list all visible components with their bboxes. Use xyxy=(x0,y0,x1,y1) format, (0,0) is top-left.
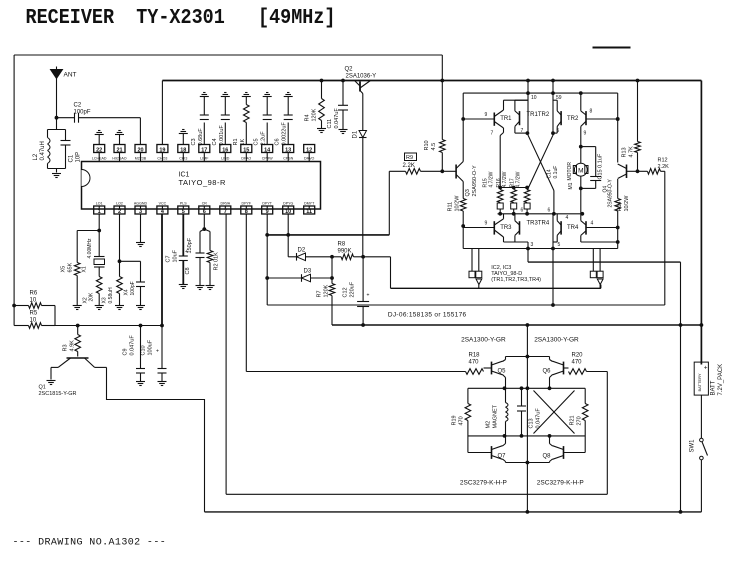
wire cross coupling lower xyxy=(534,391,575,434)
svg-text:2.2K: 2.2K xyxy=(658,164,670,170)
svg-text:2.2uF: 2.2uF xyxy=(261,131,267,146)
svg-text:R20: R20 xyxy=(572,353,584,359)
svg-text:TR4: TR4 xyxy=(567,225,579,231)
wire pin7 down xyxy=(225,214,227,494)
switch SW1 xyxy=(690,438,708,512)
IC1 top pins 22-12 xyxy=(92,145,315,162)
wire emitter bus y213 xyxy=(498,208,585,216)
antenna ANT xyxy=(51,67,77,120)
svg-text:100uF: 100uF xyxy=(148,339,154,355)
svg-text:120K: 120K xyxy=(324,284,330,297)
resistor R14 10/2W xyxy=(615,195,630,212)
ground above pin 22 xyxy=(95,131,104,145)
transistor Q7 2SC3279 xyxy=(460,436,528,487)
resistor R15 4.7/2W xyxy=(483,171,504,213)
svg-text:150pF: 150pF xyxy=(187,237,193,253)
svg-text:LO1: LO1 xyxy=(96,202,103,206)
wire X right leg xyxy=(552,191,556,216)
wire pin8 down xyxy=(245,214,247,372)
wire pin10 drop xyxy=(288,235,296,257)
drawing number text xyxy=(13,538,167,549)
svg-text:0.68uF: 0.68uF xyxy=(198,128,204,146)
capacitor C12 220uF xyxy=(343,257,370,327)
capacitor C11 0.047uF xyxy=(327,81,348,134)
wire pin9 to Q4 base xyxy=(267,171,665,307)
stray mark top right xyxy=(593,47,631,49)
svg-text:R3: R3 xyxy=(63,344,69,351)
H-bridge box bottom edge xyxy=(463,248,618,250)
capacitor C4 0.001uF xyxy=(212,93,230,146)
lower bridge box top xyxy=(468,386,585,390)
wire pin19 to rail xyxy=(161,81,163,145)
svg-text:TR2: TR2 xyxy=(567,116,579,122)
resistor R20 470 xyxy=(569,353,608,375)
svg-text:3: 3 xyxy=(139,209,142,215)
svg-text:270: 270 xyxy=(577,416,583,425)
svg-text:6: 6 xyxy=(521,208,524,214)
svg-text:2SC3279-K-H-P: 2SC3279-K-H-P xyxy=(460,480,507,487)
svg-text:+: + xyxy=(367,293,370,299)
svg-text:LCHEAD: LCHEAD xyxy=(92,156,107,160)
wire base bus y288 xyxy=(391,285,601,289)
svg-text:MAGNET: MAGNET xyxy=(493,404,499,428)
transistor TR4a middle xyxy=(527,214,562,249)
svg-text:R14: R14 xyxy=(617,201,623,211)
capacitor C15 0.1uF xyxy=(581,147,604,189)
svg-text:D3: D3 xyxy=(304,269,312,275)
svg-text:M223B: M223B xyxy=(135,156,147,160)
top border wire xyxy=(14,55,442,81)
wire R8 to TR bases xyxy=(363,257,390,289)
svg-text:TAIYO_98-R: TAIYO_98-R xyxy=(179,178,226,187)
svg-text:X3: X3 xyxy=(102,297,108,303)
svg-text:0.58uH: 0.58uH xyxy=(108,287,114,304)
wire R15-R17 top bus xyxy=(498,186,529,190)
svg-text:(TR1,TR2,TR3,TR4): (TR1,TR2,TR3,TR4) xyxy=(491,277,541,283)
svg-text:0.047uF: 0.047uF xyxy=(334,108,340,129)
svg-text:C13: C13 xyxy=(529,418,535,428)
resistor R2 01K xyxy=(204,229,219,289)
capacitor C6 0.0022uF xyxy=(275,93,293,146)
svg-text:LIND: LIND xyxy=(221,156,230,160)
H-bridge box top edge xyxy=(463,91,618,95)
ground pin 3 xyxy=(136,214,145,247)
IC2 IC3 label xyxy=(491,265,541,283)
resistor R18 470 xyxy=(466,353,484,375)
svg-text:7: 7 xyxy=(491,131,494,137)
svg-text:2SA950-O-Y: 2SA950-O-Y xyxy=(608,178,614,207)
svg-text:+: + xyxy=(156,349,159,355)
svg-text:R4: R4 xyxy=(305,114,311,121)
svg-text:10/2W: 10/2W xyxy=(455,195,461,212)
svg-text:R9: R9 xyxy=(406,155,413,161)
inductor M2 MAGNET xyxy=(486,388,509,436)
ground below L2 C1 xyxy=(52,174,61,178)
svg-text:9: 9 xyxy=(485,112,488,118)
svg-text:65K: 65K xyxy=(68,262,74,272)
ground above pin 21 xyxy=(115,131,124,145)
svg-text:CPSN: CPSN xyxy=(283,156,293,160)
node R8 left xyxy=(330,255,334,259)
svg-text:7: 7 xyxy=(521,128,524,134)
wire C2 to pin 20 xyxy=(139,118,141,145)
svg-text:TR3: TR3 xyxy=(500,225,512,231)
wire pin9 drop xyxy=(265,235,301,305)
svg-text:R21: R21 xyxy=(570,415,576,425)
svg-text:1: 1 xyxy=(98,209,101,215)
node C12 top xyxy=(361,255,365,259)
resistor R8 990K xyxy=(332,242,363,260)
resistor R5 10 xyxy=(14,311,55,329)
svg-text:DRVO: DRVO xyxy=(304,156,315,160)
crystal X1 4.00MHz xyxy=(82,231,105,277)
svg-text:BATTERY: BATTERY xyxy=(697,373,702,391)
svg-text:100pF: 100pF xyxy=(130,281,136,295)
svg-text:C6: C6 xyxy=(275,138,281,145)
svg-text:10: 10 xyxy=(30,298,37,304)
resistor R21 270 box right edge xyxy=(570,388,589,452)
transistor Q8 2SC3279 xyxy=(527,436,585,487)
svg-text:R8: R8 xyxy=(338,242,346,248)
transistor TR4 xyxy=(566,214,620,244)
capacitor C10 100uF xyxy=(141,326,167,386)
svg-text:19: 19 xyxy=(159,147,165,153)
svg-text:Q3: Q3 xyxy=(465,189,471,196)
transistor Q2 2SA1036-Y xyxy=(345,67,377,97)
svg-text:2SA950-O-Y: 2SA950-O-Y xyxy=(472,165,478,197)
svg-text:CHO3: CHO3 xyxy=(157,156,167,160)
svg-text:2SC1815-Y-GR: 2SC1815-Y-GR xyxy=(39,391,77,397)
connector pins IC2 left xyxy=(469,249,482,289)
wire Q6 base right bus xyxy=(606,372,608,495)
svg-text:LO2: LO2 xyxy=(116,202,123,206)
svg-text:100pF: 100pF xyxy=(74,110,91,116)
svg-text:R5: R5 xyxy=(30,311,38,317)
svg-text:20: 20 xyxy=(137,147,143,153)
svg-text:D1: D1 xyxy=(353,130,359,138)
svg-text:Q6: Q6 xyxy=(542,369,551,375)
svg-text:DPYG: DPYG xyxy=(283,202,293,206)
resistor X2 20K xyxy=(83,277,104,310)
wire mid drop left xyxy=(526,247,530,263)
resistor R13 4.7K xyxy=(622,81,641,172)
svg-text:990K: 990K xyxy=(338,249,352,255)
svg-text:10P: 10P xyxy=(76,152,82,163)
op-amp IC1 body xyxy=(82,162,321,210)
svg-text:17: 17 xyxy=(201,147,207,153)
svg-text:X1: X1 xyxy=(82,266,88,272)
svg-text:470: 470 xyxy=(572,360,583,366)
svg-text:20K: 20K xyxy=(89,292,95,302)
svg-text:CHI3: CHI3 xyxy=(179,156,187,160)
resistor R16 4.7/2W xyxy=(496,171,517,213)
svg-text:12: 12 xyxy=(306,147,312,153)
svg-text:TR1TR2: TR1TR2 xyxy=(527,112,550,118)
svg-text:M2: M2 xyxy=(486,421,492,429)
svg-text:5: 5 xyxy=(558,242,561,248)
svg-text:4.7/2W: 4.7/2W xyxy=(489,171,495,187)
svg-text:Q2: Q2 xyxy=(345,67,354,73)
svg-text:10: 10 xyxy=(285,209,291,215)
title text xyxy=(26,7,336,30)
diode D3 xyxy=(302,269,333,282)
svg-text:470: 470 xyxy=(459,416,465,425)
svg-text:R13: R13 xyxy=(622,147,628,157)
battery bus wire right xyxy=(700,81,702,365)
svg-text:R10: R10 xyxy=(424,140,430,150)
svg-text:4: 4 xyxy=(591,221,594,227)
diode D2 xyxy=(297,248,333,261)
svg-text:C5: C5 xyxy=(254,138,260,145)
svg-text:C1: C1 xyxy=(69,154,75,162)
resistor R3 4.9K xyxy=(63,326,81,357)
svg-text:R19: R19 xyxy=(452,415,458,425)
transistor TR1 xyxy=(463,100,528,187)
wire pin9 pin10 bus xyxy=(265,171,389,237)
svg-text:2SA1300-Y-GR: 2SA1300-Y-GR xyxy=(534,337,579,344)
connector pins IC3 right xyxy=(590,249,603,289)
svg-text:0.1uF: 0.1uF xyxy=(553,166,559,179)
svg-text:Q1: Q1 xyxy=(39,385,46,391)
svg-text:DPYT: DPYT xyxy=(262,202,272,206)
svg-text:DFAO: DFAO xyxy=(241,156,251,160)
svg-text:13: 13 xyxy=(285,147,291,153)
svg-text:1K: 1K xyxy=(240,138,246,145)
svg-text:5: 5 xyxy=(182,209,185,215)
svg-text:M1: M1 xyxy=(568,182,574,189)
svg-text:C8: C8 xyxy=(185,267,191,274)
svg-text:+: + xyxy=(704,365,708,372)
svg-text:0.0022uF: 0.0022uF xyxy=(282,122,288,146)
resistor R4 120K xyxy=(305,81,327,133)
svg-text:C9: C9 xyxy=(123,348,129,355)
capacitor C1 xyxy=(48,130,82,173)
lower bridge box bottom xyxy=(468,434,585,438)
resistor R10 4.5K xyxy=(424,81,445,174)
ground above pin 18 xyxy=(179,130,188,145)
svg-text:6: 6 xyxy=(548,208,551,214)
svg-text:TR1: TR1 xyxy=(500,116,512,122)
svg-text:H92SAO: H92SAO xyxy=(112,156,126,160)
svg-text:11: 11 xyxy=(306,209,312,215)
capacitor C9 0.047uF xyxy=(123,326,146,386)
inner bus right vertical xyxy=(679,262,683,514)
svg-text:R7: R7 xyxy=(317,290,323,297)
wire rail drop 59 xyxy=(553,81,562,134)
svg-text:LIMF: LIMF xyxy=(200,156,209,160)
svg-text:0.001uF: 0.001uF xyxy=(219,125,225,146)
svg-text:5: 5 xyxy=(557,128,560,134)
svg-text:7.2V_PACK: 7.2V_PACK xyxy=(718,364,724,396)
svg-text:10/2W: 10/2W xyxy=(624,195,630,212)
motor M1 xyxy=(567,145,588,214)
wire pin2 down xyxy=(118,214,122,263)
svg-text:4.00MHz: 4.00MHz xyxy=(87,238,93,259)
wire cross coupling upper xyxy=(527,133,554,190)
svg-text:BATT: BATT xyxy=(711,380,717,395)
svg-text:10: 10 xyxy=(531,95,537,101)
svg-text:ANT: ANT xyxy=(64,72,77,79)
svg-text:4.9K: 4.9K xyxy=(70,340,76,352)
resistor R7 120K xyxy=(317,278,335,325)
node R7 top xyxy=(330,257,334,280)
svg-text:4.7/2W: 4.7/2W xyxy=(516,171,522,187)
svg-text:C3: C3 xyxy=(191,138,197,145)
svg-text:M: M xyxy=(578,167,583,174)
transistor Q4 2SA950-O-Y xyxy=(603,164,640,208)
wire rail drop 10 xyxy=(528,81,537,134)
svg-text:DMYT: DMYT xyxy=(304,202,315,206)
resistor R11 10/2W xyxy=(448,195,467,212)
capacitor C13 0.047uF xyxy=(517,386,542,437)
wire mid drop right xyxy=(551,247,555,305)
svg-text:--- DRAWING NO.A1302 ---: --- DRAWING NO.A1302 --- xyxy=(13,538,167,549)
ground Q1 xyxy=(47,381,56,385)
svg-text:8: 8 xyxy=(590,109,593,115)
svg-text:4: 4 xyxy=(566,215,569,221)
svg-text:16: 16 xyxy=(222,147,228,153)
V+ rail wire xyxy=(162,79,701,83)
wire pin8 to R18 xyxy=(246,371,465,373)
svg-text:X4: X4 xyxy=(124,289,130,295)
svg-text:6: 6 xyxy=(203,209,206,215)
svg-text:R6: R6 xyxy=(30,291,38,297)
capacitor X4 100pF xyxy=(120,261,146,309)
svg-text:Q8: Q8 xyxy=(542,454,551,460)
transistor TR3b middle xyxy=(515,214,520,242)
svg-text:2: 2 xyxy=(118,209,121,215)
svg-text:22: 22 xyxy=(96,147,102,153)
transistor Q6 2SA1300-Y-GR xyxy=(527,337,579,389)
resistor R19 470 box left edge xyxy=(452,388,471,452)
capacitor C8 150pF xyxy=(185,214,206,290)
left border wire xyxy=(13,55,15,326)
svg-text:D2: D2 xyxy=(298,248,306,254)
capacitor C14 0.1uF xyxy=(547,166,560,179)
svg-text:DRVA: DRVA xyxy=(220,202,230,206)
svg-text:220uF: 220uF xyxy=(350,281,356,297)
svg-text:4.7K: 4.7K xyxy=(629,146,635,158)
svg-text:AGGND: AGGND xyxy=(134,202,148,206)
diode D1 xyxy=(353,97,367,258)
resistor R9 2.2K xyxy=(389,153,442,174)
VCC rail left segment xyxy=(55,324,164,328)
svg-text:120K: 120K xyxy=(312,108,318,121)
svg-text:L2: L2 xyxy=(33,153,39,160)
svg-text:C14: C14 xyxy=(547,169,553,178)
svg-text:Q5: Q5 xyxy=(498,369,507,375)
resistor R6 10 xyxy=(12,291,55,326)
svg-text:8: 8 xyxy=(245,209,248,215)
svg-text:VCC: VCC xyxy=(159,202,167,206)
svg-text:TR3TR4: TR3TR4 xyxy=(527,221,550,227)
wire lower bridge center xyxy=(526,325,530,514)
battery BATT 7.2V_PACK xyxy=(694,325,724,438)
svg-text:R1: R1 xyxy=(233,138,239,145)
svg-text:10: 10 xyxy=(30,318,37,324)
svg-text:CPRW: CPRW xyxy=(262,156,274,160)
inductor L2 xyxy=(33,118,66,169)
H-bridge box right edge xyxy=(616,93,620,248)
wire pin1 down xyxy=(97,214,101,232)
DJ-06 note text xyxy=(388,312,467,319)
svg-text:3: 3 xyxy=(531,242,534,248)
svg-text:R18: R18 xyxy=(469,353,481,359)
IC1 bottom pins 1-11 xyxy=(94,202,315,215)
svg-text:18: 18 xyxy=(180,147,186,153)
capacitor C5 2.2uF xyxy=(254,93,272,146)
svg-text:21: 21 xyxy=(116,147,122,153)
svg-text:15: 15 xyxy=(243,147,249,153)
svg-text:RECEIVER TY-X2301 [49MHz]: RECEIVER TY-X2301 [49MHz] xyxy=(26,7,336,30)
svg-text:9: 9 xyxy=(266,209,269,215)
H-bridge outer box left edge xyxy=(461,93,465,248)
wire Q1 emitter staircase xyxy=(107,367,205,512)
wire pin7 bottom bus xyxy=(226,493,607,495)
svg-text:2SA1300-Y-GR: 2SA1300-Y-GR xyxy=(461,337,506,344)
svg-text:2SC3279-K-H-P: 2SC3279-K-H-P xyxy=(537,480,584,487)
svg-text:C2: C2 xyxy=(74,103,82,109)
transistor TR2 xyxy=(567,91,620,146)
capacitor C3 0.68uF xyxy=(191,93,209,146)
ground return rail xyxy=(205,511,702,513)
svg-text:C10: C10 xyxy=(141,345,147,355)
svg-text:9: 9 xyxy=(485,221,488,227)
transistor TR3 xyxy=(463,214,528,249)
svg-text:PLS: PLS xyxy=(180,202,187,206)
svg-text:9: 9 xyxy=(584,131,587,137)
svg-text:C15 0.1uF: C15 0.1uF xyxy=(598,153,604,179)
svg-text:MOTOR: MOTOR xyxy=(567,162,573,181)
resistor X5 65K xyxy=(61,231,100,310)
transistor Q1 2SC1815-Y-GR xyxy=(39,358,107,397)
svg-text:R11: R11 xyxy=(448,202,454,212)
supply rail wire xyxy=(332,323,703,327)
capacitor C7 10uF xyxy=(166,214,189,289)
svg-text:R12: R12 xyxy=(658,158,668,164)
transistor TR1b middle xyxy=(515,100,529,135)
svg-text:2.2K: 2.2K xyxy=(403,163,415,169)
svg-text:14: 14 xyxy=(264,147,271,153)
transistor Q5 2SA1300-Y-GR xyxy=(461,337,527,389)
transistor TR2a middle xyxy=(527,100,562,135)
svg-text:4.7/2W: 4.7/2W xyxy=(502,171,508,187)
svg-text:2SA1036-Y: 2SA1036-Y xyxy=(346,74,377,80)
svg-text:C12: C12 xyxy=(343,287,349,297)
svg-text:7: 7 xyxy=(224,209,227,215)
svg-text:C11: C11 xyxy=(327,119,333,129)
svg-text:C4: C4 xyxy=(212,138,218,145)
svg-text:10uF: 10uF xyxy=(173,249,179,262)
svg-text:X5: X5 xyxy=(61,266,67,273)
svg-text:DPYF: DPYF xyxy=(242,202,252,206)
svg-text:R2 01K: R2 01K xyxy=(214,252,220,271)
resistor R1 1K xyxy=(233,93,251,146)
transistor Q3 2SA950-O-Y xyxy=(442,162,478,197)
svg-text:0.47uH: 0.47uH xyxy=(40,141,46,160)
resistor R17 4.7/2W xyxy=(510,171,531,213)
svg-text:0.047uF: 0.047uF xyxy=(130,335,136,356)
svg-text:CR: CR xyxy=(202,202,208,206)
svg-text:C7: C7 xyxy=(166,255,172,262)
wire emitter bus y261 xyxy=(528,261,681,263)
inductor X3 0.58uH xyxy=(102,261,125,309)
resistor R12 2.2K xyxy=(638,158,670,175)
capacitor C2 xyxy=(57,103,141,123)
svg-text:SW1: SW1 xyxy=(690,439,696,453)
svg-text:470: 470 xyxy=(469,360,480,366)
svg-text:DJ-06:158135 or 155176: DJ-06:158135 or 155176 xyxy=(388,312,467,319)
